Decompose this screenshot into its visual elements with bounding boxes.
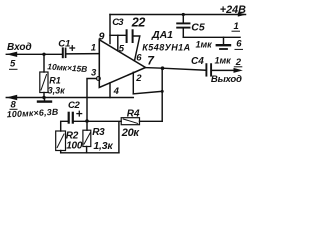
wire: input arrow head [6,52,17,57]
resistor R4 [121,118,139,125]
ground [38,98,51,102]
svg-text:3: 3 [91,67,97,78]
svg-text:6: 6 [236,39,242,50]
wire: C2 left lead down to R2 top [61,121,68,131]
label terminal 6 [235,39,244,50]
resistor R3 [83,130,91,153]
svg-text:10мк×15В: 10мк×15В [47,61,88,74]
wire: pin 9 stub up from triangle to +24V rail [109,15,111,44]
svg-text:R1: R1 [49,75,61,85]
op-amp U1 triangle [99,40,145,88]
wire: bottom wire joining R2 R3 bottoms to R4 left lead drop [61,152,119,154]
capacitor C2 [69,113,73,123]
svg-text:5: 5 [119,43,125,54]
capacitor C1 [63,48,66,57]
label terminal 1 [232,21,241,32]
svg-text:Вход: Вход [7,42,32,53]
svg-text:9: 9 [99,31,105,43]
wire: ground wire with terminal 6 [183,36,240,38]
wire: op-amp pin 3 lead and vertical to node [87,79,97,131]
wire: C1 right lead to op-amp pin 1 [66,53,98,55]
label C2 plus [76,111,82,117]
wire: C3 left lead and pin 5 stub [110,34,125,36]
ground near C5 [217,37,230,49]
wire: pin 4 stub from triangle bottom edge to bus [109,83,111,98]
svg-text:1мк: 1мк [196,39,213,49]
node: input junction with R1 [42,53,45,56]
svg-text:4: 4 [113,86,120,97]
svg-text:22: 22 [131,16,146,30]
wire: bus arrow head [6,95,17,100]
wire: +24V rail [110,14,246,16]
svg-text:1,3к: 1,3к [93,140,113,152]
wire: C3 right lead down toward pin 6 [134,36,140,61]
label terminal 8 [10,100,18,111]
svg-text:Выход: Выход [211,74,242,85]
wire: input line from terminal 5 to C1 [6,53,62,55]
svg-text:К548УН1А: К548УН1А [142,42,190,52]
node: junction of pin3 line and node wire [85,119,89,123]
resistor R2 [56,131,66,153]
svg-text:1мк: 1мк [215,56,232,66]
wire: output to terminal 2 [212,69,234,71]
svg-text:1: 1 [91,43,96,54]
wire: R1 top lead [43,54,45,72]
node: C5 rail junction [182,13,185,16]
wire: output arrow head [234,68,243,73]
svg-text:R4: R4 [127,109,140,120]
svg-text:С3: С3 [112,17,124,28]
label terminal 2 [234,57,243,68]
svg-text:1: 1 [234,21,239,32]
svg-text:5: 5 [10,59,16,70]
wire: feedback vertical line [161,68,163,121]
wire: R4 right lead to feedback line [140,120,163,122]
label terminal 5 [9,59,18,70]
wire: output from op-amp to C4 [145,68,206,71]
wire: R1 bottom lead to common bus [43,93,45,98]
svg-text:100мк×6,3В: 100мк×6,3В [6,107,59,120]
capacitor C5 [177,15,189,38]
svg-text:+24В: +24В [220,4,246,16]
svg-text:ДА1: ДА1 [151,29,173,41]
wire: R4 left lead drop to bottom wire [118,122,120,153]
svg-text:6: 6 [136,53,142,64]
node: pin 3 terminal circle [97,77,101,81]
svg-text:С2: С2 [68,100,81,111]
wire: feedback node line from C2 to R4 [74,120,121,122]
node: pin 2 wire junction [161,90,164,93]
capacitor C4 [206,64,211,75]
resistor R1 [40,72,48,93]
svg-text:7: 7 [147,54,155,68]
wire: pin 2 elbow from triangle bottom edge [132,72,134,94]
node: bus junction at R1 [42,96,45,99]
svg-text:2: 2 [135,73,142,84]
svg-text:С5: С5 [191,22,205,34]
capacitor C3 [127,30,133,42]
node: feedback junction on output wire [161,66,165,70]
svg-text:R3: R3 [92,127,105,138]
wire: rail arrow head [238,12,247,16]
svg-text:3,3к: 3,3к [48,85,66,95]
svg-text:100: 100 [66,141,83,152]
svg-text:20к: 20к [121,127,141,139]
svg-text:С1: С1 [58,38,70,49]
label C1 plus [69,45,75,51]
wire: common bus with terminal 8 [6,97,133,99]
svg-text:С4: С4 [191,56,204,67]
